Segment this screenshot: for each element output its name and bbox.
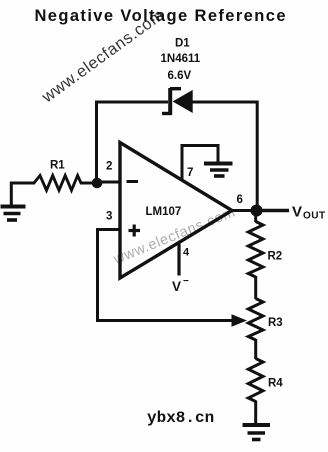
zener diode D1 [162, 88, 193, 115]
wire: R2 to R3 [254, 276, 257, 299]
wire: node down to R2 [254, 211, 257, 223]
svg-text:4: 4 [183, 247, 190, 259]
node: junction dot at inverting input [92, 178, 103, 189]
wire: pin 4 stub down [177, 243, 180, 276]
svg-text:1N4611: 1N4611 [161, 53, 201, 65]
resistor R2 [248, 222, 263, 278]
wire: R4 down to ground [254, 401, 257, 425]
wire: pin 3 loop (left, down, bottom run to R3 wiper) [98, 230, 237, 321]
wire: R3 to R4 [254, 339, 257, 359]
ground (bottom, below R4) [243, 425, 271, 440]
plus sign (non-inverting input) [129, 225, 141, 237]
wire: output to VOUT [257, 209, 290, 212]
svg-text:3: 3 [106, 211, 112, 223]
wire: feedback vertical (node to top rail) [95, 102, 98, 183]
svg-text:−: − [183, 276, 189, 287]
svg-text:6.6V: 6.6V [168, 70, 192, 82]
svg-text:6: 6 [237, 194, 243, 206]
wire: pin 7 stub up and over to ground [182, 146, 218, 181]
wire: top rail right segment + right vertical down to output node [191, 102, 257, 211]
svg-text:7: 7 [187, 167, 193, 179]
svg-text:2: 2 [106, 161, 112, 173]
ground (left, below R1) [1, 207, 26, 221]
svg-text:D1: D1 [175, 38, 190, 50]
ground (pin 7) [204, 164, 233, 177]
resistor R3 (potentiometer) [248, 299, 263, 341]
svg-text:ybx8.cn: ybx8.cn [147, 409, 214, 427]
svg-text:R3: R3 [268, 317, 283, 329]
wire: top rail left segment (to zener cathode) [95, 101, 168, 104]
svg-text:R4: R4 [268, 378, 283, 390]
svg-text:R2: R2 [268, 251, 283, 263]
resistor R1 [34, 176, 97, 191]
wire: pin 2 from node to op-amp [97, 181, 120, 184]
wire: R1 left lead + corner down to ground [11, 183, 35, 205]
svg-text:V: V [172, 279, 181, 294]
svg-text:V: V [292, 204, 302, 221]
wire: op-amp output to node [232, 209, 256, 212]
svg-text:R1: R1 [50, 160, 65, 172]
resistor R4 [248, 359, 263, 402]
wiper arrowhead into R3 [232, 314, 248, 327]
node: output junction dot [251, 205, 263, 217]
minus sign (inverting input) [127, 180, 139, 183]
svg-text:OUT: OUT [303, 211, 326, 222]
svg-text:LM107: LM107 [146, 206, 182, 218]
op-amp U1 LM107 triangle [120, 143, 232, 279]
